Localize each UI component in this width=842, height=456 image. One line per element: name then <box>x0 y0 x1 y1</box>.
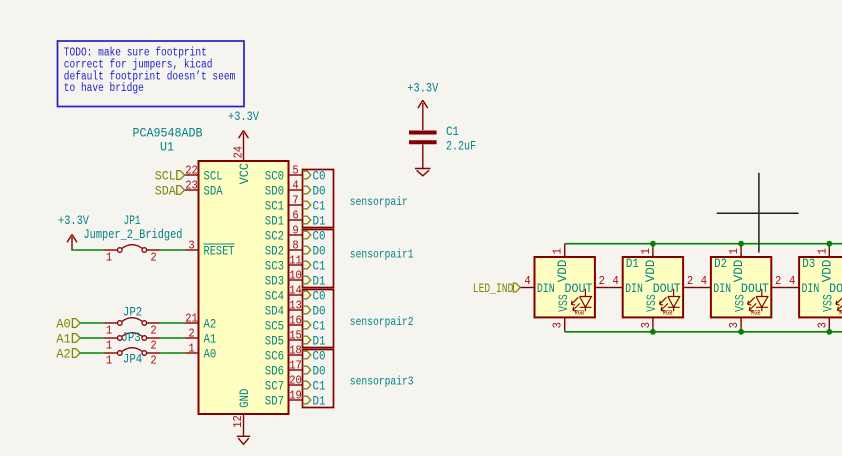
svg-text:1: 1 <box>727 248 741 254</box>
svg-text:2: 2 <box>188 327 194 341</box>
svg-text:24: 24 <box>232 146 246 159</box>
sheet pin C1 of sensorpair1 <box>303 261 311 269</box>
svg-text:DIN: DIN <box>537 281 555 296</box>
svg-text:D1: D1 <box>626 256 639 271</box>
svg-text:RGB: RGB <box>575 310 585 317</box>
svg-text:9: 9 <box>292 224 298 238</box>
capacitor C1 2.2uF <box>409 124 476 153</box>
power symbol +3.3V at JP1 <box>58 213 89 250</box>
svg-text:D1: D1 <box>313 274 326 289</box>
svg-text:12: 12 <box>231 415 245 428</box>
cursor crosshair <box>717 173 799 253</box>
pin 13 SD4 of U1, wire to sheet <box>265 299 303 319</box>
svg-text:D0: D0 <box>313 244 326 259</box>
wire A2 label to jumper <box>80 352 104 354</box>
sheet pin C1 of sensorpair <box>303 201 311 209</box>
svg-text:3: 3 <box>639 322 653 328</box>
svg-text:SCL: SCL <box>204 169 223 184</box>
svg-text:3: 3 <box>815 322 829 328</box>
ground symbol at C1 <box>415 169 431 176</box>
svg-text:VDD: VDD <box>643 259 658 282</box>
svg-text:17: 17 <box>289 359 302 373</box>
pin 3 RESET of U1 <box>185 239 235 259</box>
pin 4 DIN of LED 1 <box>521 274 555 296</box>
svg-text:sensorpair2: sensorpair2 <box>350 315 414 329</box>
svg-text:SC2: SC2 <box>265 229 284 244</box>
svg-text:D2: D2 <box>714 256 727 271</box>
pin 7 SC1 of U1, wire to sheet <box>265 194 303 214</box>
svg-text:U1: U1 <box>160 140 174 155</box>
pin 20 SC7 of U1, wire to sheet <box>265 374 303 394</box>
pin 14 SC4 of U1, wire to sheet <box>265 284 303 304</box>
svg-text:JP4: JP4 <box>123 352 142 367</box>
svg-text:VSS: VSS <box>556 294 571 312</box>
svg-text:4: 4 <box>524 274 530 288</box>
svg-text:A1: A1 <box>204 332 217 347</box>
svg-text:VCC: VCC <box>237 163 252 185</box>
svg-text:20: 20 <box>289 374 302 388</box>
svg-text:SD3: SD3 <box>265 274 284 289</box>
svg-text:18: 18 <box>289 344 302 358</box>
svg-text:14: 14 <box>289 284 302 298</box>
ground symbol at U1 pin 12 <box>237 436 250 444</box>
svg-text:15: 15 <box>289 329 302 343</box>
svg-text:SD2: SD2 <box>265 244 284 259</box>
svg-text:A0: A0 <box>204 347 217 362</box>
svg-text:3: 3 <box>551 322 565 328</box>
svg-text:D1: D1 <box>313 334 326 349</box>
svg-text:19: 19 <box>289 389 302 403</box>
svg-text:C1: C1 <box>446 124 459 139</box>
svg-text:sensorpair: sensorpair <box>350 195 408 209</box>
svg-text:LED_IND: LED_IND <box>473 281 514 296</box>
svg-text:RESET: RESET <box>204 244 235 259</box>
power symbol +3.3V at U1 VCC <box>228 109 259 161</box>
pin 15 SD5 of U1, wire to sheet <box>265 329 303 349</box>
jumper JP1 <box>104 245 161 265</box>
svg-text:SD7: SD7 <box>265 394 284 409</box>
svg-text:C0: C0 <box>313 289 326 304</box>
pin 10 SD3 of U1, wire to sheet <box>265 269 303 289</box>
svg-text:SDA: SDA <box>204 184 223 199</box>
svg-text:Jumper_2_Bridged: Jumper_2_Bridged <box>84 227 183 242</box>
sheet pin D0 of sensorpair1 <box>303 246 311 254</box>
svg-text:2.2uF: 2.2uF <box>446 138 476 153</box>
sheet pin C0 of sensorpair1 <box>303 231 311 239</box>
svg-text:C0: C0 <box>313 229 326 244</box>
svg-text:SC1: SC1 <box>265 199 284 214</box>
junction at VSS rail x=829.3 <box>826 329 832 335</box>
svg-text:6: 6 <box>292 209 298 223</box>
sheet pin D1 of sensorpair3 <box>303 396 311 404</box>
jumper JP3 <box>104 333 161 353</box>
svg-text:VSS: VSS <box>644 294 659 312</box>
pin 1 A0 of U1 <box>185 342 217 362</box>
sheet sensorpair <box>303 169 408 229</box>
svg-text:1: 1 <box>106 354 112 368</box>
pin 2 DOUT of LED 2 <box>653 274 697 296</box>
LED D1 (WS2812) body <box>623 256 683 317</box>
sheet pin C0 of sensorpair <box>303 171 311 179</box>
svg-text:2: 2 <box>687 274 693 288</box>
svg-text:2: 2 <box>150 251 156 265</box>
svg-text:+3.3V: +3.3V <box>58 213 89 228</box>
svg-text:C0: C0 <box>313 169 326 184</box>
svg-text:13: 13 <box>289 299 302 313</box>
pin 2 DOUT of LED 1 <box>565 274 609 296</box>
svg-text:2: 2 <box>775 274 781 288</box>
LED D? (WS2812) body <box>535 257 595 317</box>
hierarchical label A0 <box>56 317 80 332</box>
sheet pin C1 of sensorpair3 <box>303 381 311 389</box>
svg-text:1: 1 <box>188 342 194 356</box>
junction at VDD rail x=652.9 <box>650 241 656 247</box>
sheet pin C1 of sensorpair2 <box>303 321 311 329</box>
junction at VDD rail x=741.1 <box>738 241 744 247</box>
pin 19 SD7 of U1, wire to sheet <box>265 389 303 409</box>
svg-text:SC5: SC5 <box>265 319 284 334</box>
svg-text:GND: GND <box>237 388 252 407</box>
svg-text:SC6: SC6 <box>265 349 284 364</box>
svg-text:SC7: SC7 <box>265 379 284 394</box>
svg-text:C1: C1 <box>313 259 326 274</box>
svg-text:SDA: SDA <box>155 184 176 199</box>
wire jumper to U1 <box>160 337 184 339</box>
junction at VDD rail x=829.3 <box>826 241 832 247</box>
power symbol +3.3V at C1 <box>407 81 438 131</box>
pin 4 SD0 of U1, wire to sheet <box>265 179 303 199</box>
pin 2 DOUT of LED 3 <box>741 274 785 296</box>
svg-text:1: 1 <box>106 251 112 265</box>
hierarchical label SDA <box>155 184 185 199</box>
pin 24 VCC of U1 <box>232 146 252 185</box>
wire A0 label to jumper <box>80 322 104 324</box>
sheet pin D1 of sensorpair1 <box>303 276 311 284</box>
pin 18 SC6 of U1, wire to sheet <box>265 344 303 364</box>
svg-text:RGB: RGB <box>751 310 761 317</box>
pin 3 VSS of LED 2 <box>639 294 659 332</box>
svg-text:VSS: VSS <box>821 294 836 312</box>
svg-text:SCL: SCL <box>155 169 176 184</box>
pin 1 VDD of LED 2 <box>639 244 658 283</box>
svg-text:D1: D1 <box>313 394 326 409</box>
svg-text:D1: D1 <box>313 214 326 229</box>
svg-text:4: 4 <box>613 274 619 288</box>
svg-text:5: 5 <box>292 164 298 178</box>
svg-text:1: 1 <box>106 324 112 338</box>
sheet pin D1 of sensorpair2 <box>303 336 311 344</box>
svg-text:VDD: VDD <box>819 259 834 282</box>
svg-text:A1: A1 <box>56 332 71 347</box>
svg-text:2: 2 <box>150 339 156 353</box>
svg-text:21: 21 <box>185 312 198 326</box>
svg-text:+3.3V: +3.3V <box>228 109 259 124</box>
svg-text:SD5: SD5 <box>265 334 284 349</box>
svg-text:DIN: DIN <box>713 281 731 296</box>
pin 5 SC0 of U1, wire to sheet <box>265 164 303 184</box>
svg-text:3: 3 <box>727 322 741 328</box>
svg-text:VDD: VDD <box>731 259 746 282</box>
pin 21 A2 of U1 <box>185 312 217 332</box>
pin 12 GND of U1 <box>231 388 252 436</box>
svg-text:to have bridge: to have bridge <box>64 82 144 95</box>
sheet pin D0 of sensorpair3 <box>303 366 311 374</box>
svg-text:C1: C1 <box>313 379 326 394</box>
svg-text:1: 1 <box>551 248 565 254</box>
junction at VSS rail x=741.1 <box>738 329 744 335</box>
svg-text:C1: C1 <box>313 319 326 334</box>
junction at VSS rail x=652.9 <box>650 329 656 335</box>
svg-text:3: 3 <box>188 239 194 253</box>
pin 17 SD6 of U1, wire to sheet <box>265 359 303 379</box>
svg-text:VSS: VSS <box>732 294 747 312</box>
svg-text:D0: D0 <box>313 364 326 379</box>
svg-text:SD1: SD1 <box>265 214 284 229</box>
svg-text:+3.3V: +3.3V <box>407 81 438 96</box>
sheet pin C0 of sensorpair2 <box>303 291 311 299</box>
svg-text:22: 22 <box>185 164 198 178</box>
pin 11 SC3 of U1, wire to sheet <box>265 254 303 274</box>
svg-text:11: 11 <box>289 254 302 268</box>
IC U1 PCA9548ADB multiplexer body <box>133 126 289 415</box>
pin 3 VSS of LED 1 <box>551 294 571 332</box>
pin 2 DOUT of LED 4 <box>829 281 842 296</box>
pin 1 VDD of LED 4 <box>815 244 834 283</box>
svg-text:SD0: SD0 <box>265 184 284 199</box>
svg-text:JP1: JP1 <box>124 213 141 228</box>
LED D2 (WS2812) body <box>711 256 771 317</box>
svg-text:1: 1 <box>815 248 829 254</box>
pin 6 SD1 of U1, wire to sheet <box>265 209 303 229</box>
pin 2 A1 of U1 <box>185 327 217 347</box>
pin 23 SDA of U1 <box>185 179 223 199</box>
sheet pin D1 of sensorpair <box>303 216 311 224</box>
wire +3.3V to JP1 pin1 <box>71 249 103 251</box>
sheet sensorpair1 <box>303 229 414 289</box>
svg-text:C0: C0 <box>313 349 326 364</box>
svg-text:sensorpair3: sensorpair3 <box>350 374 414 388</box>
svg-text:2: 2 <box>599 274 605 288</box>
svg-text:D0: D0 <box>313 184 326 199</box>
RGB LED symbol inside LED 2 <box>660 289 680 317</box>
pin 4 DIN of LED 3 <box>697 274 731 296</box>
svg-text:8: 8 <box>292 239 298 253</box>
svg-text:SC0: SC0 <box>265 169 284 184</box>
pin 9 SC2 of U1, wire to sheet <box>265 224 303 244</box>
pin 16 SC5 of U1, wire to sheet <box>265 314 303 334</box>
pin 4 DIN of LED 4 <box>785 274 819 296</box>
hierarchical label LED_IND <box>473 281 521 296</box>
pin 3 VSS of LED 3 <box>727 294 747 332</box>
jumper JP2 <box>104 318 161 338</box>
sheet pin C0 of sensorpair3 <box>303 351 311 359</box>
svg-text:SC4: SC4 <box>265 289 284 304</box>
svg-text:DIN: DIN <box>625 281 643 296</box>
svg-text:10: 10 <box>289 269 302 283</box>
wire C1 to ground <box>422 145 424 169</box>
svg-text:D0: D0 <box>313 304 326 319</box>
RGB LED symbol inside LED 1 <box>571 289 591 317</box>
wire jumper to U1 <box>160 352 184 354</box>
pin 8 SD2 of U1, wire to sheet <box>265 239 303 259</box>
wire VSS rail <box>565 331 842 333</box>
hierarchical label A1 <box>56 332 80 347</box>
svg-text:SD4: SD4 <box>265 304 284 319</box>
sheet sensorpair3 <box>303 349 414 409</box>
pin 1 VDD of LED 1 <box>551 244 570 283</box>
svg-text:sensorpair1: sensorpair1 <box>350 247 414 261</box>
svg-text:DIN: DIN <box>802 281 820 296</box>
sheet pin D0 of sensorpair2 <box>303 306 311 314</box>
svg-text:4: 4 <box>789 274 795 288</box>
svg-text:SD6: SD6 <box>265 364 284 379</box>
svg-text:1: 1 <box>639 248 653 254</box>
svg-text:A2: A2 <box>56 347 71 362</box>
svg-text:4: 4 <box>292 179 298 193</box>
wire A1 label to jumper <box>80 337 104 339</box>
pin 1 VDD of LED 3 <box>727 244 746 283</box>
svg-text:JP3: JP3 <box>121 330 140 345</box>
svg-text:2: 2 <box>150 324 156 338</box>
svg-text:VDD: VDD <box>555 259 570 282</box>
svg-text:D3: D3 <box>802 256 815 271</box>
svg-text:RGB: RGB <box>663 310 673 317</box>
svg-text:A2: A2 <box>204 317 217 332</box>
svg-text:23: 23 <box>185 179 198 193</box>
svg-text:C1: C1 <box>313 199 326 214</box>
pin 22 SCL of U1 <box>185 164 223 184</box>
hierarchical label A2 <box>56 347 80 362</box>
pin 4 DIN of LED 2 <box>609 274 643 296</box>
svg-text:1: 1 <box>106 339 112 353</box>
text note TODO <box>58 41 245 107</box>
wire VDD rail <box>565 243 842 245</box>
svg-text:JP2: JP2 <box>123 304 142 319</box>
svg-text:A0: A0 <box>56 317 71 332</box>
svg-text:16: 16 <box>289 314 302 328</box>
svg-text:7: 7 <box>292 194 298 208</box>
svg-text:2: 2 <box>150 354 156 368</box>
wire JP1 pin2 to U1 RESET <box>160 249 184 251</box>
LED D3 (WS2812) body <box>799 256 842 317</box>
svg-text:PCA9548ADB: PCA9548ADB <box>133 126 203 141</box>
svg-text:4: 4 <box>701 274 707 288</box>
hierarchical label SCL <box>155 169 185 184</box>
svg-text:SC3: SC3 <box>265 259 284 274</box>
RGB LED symbol inside LED 4 <box>836 289 842 317</box>
sheet pin D0 of sensorpair <box>303 186 311 194</box>
sheet sensorpair2 <box>303 289 414 349</box>
wire jumper to U1 <box>160 322 184 324</box>
RGB LED symbol inside LED 3 <box>748 289 768 317</box>
jumper JP4 <box>104 348 161 368</box>
pin 3 VSS of LED 4 <box>815 294 835 332</box>
